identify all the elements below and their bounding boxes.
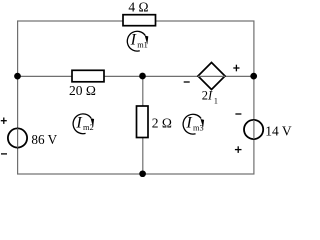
resistor 20 ohm (72, 70, 104, 82)
plus sign (diamond right) (233, 65, 239, 72)
svg-text:14 V: 14 V (265, 123, 292, 138)
dependent source 2I1 (diamond) (198, 63, 225, 90)
mesh current Im2 (73, 114, 94, 134)
minus sign (86V bottom) (1, 153, 7, 155)
minus sign (14V top) (235, 113, 241, 115)
wire middle horizontal (18, 75, 254, 77)
resistor 2 ohm (vertical) (137, 106, 149, 138)
svg-text:m2: m2 (83, 123, 94, 132)
svg-text:1: 1 (214, 97, 218, 106)
mesh current Im1 (127, 31, 148, 51)
wire middle vertical (142, 76, 144, 174)
voltage source 14V (244, 120, 263, 139)
svg-text:m1: m1 (137, 40, 148, 49)
voltage source 86V (8, 128, 27, 147)
node dot left (middle wire / left wire) (14, 73, 21, 80)
svg-text:2I: 2I (202, 89, 213, 103)
svg-text:I: I (75, 114, 82, 131)
node dot bottom (bottom wire / 2ohm branch) (139, 170, 146, 177)
node dot middle top (middle wire / 2ohm branch) (139, 73, 146, 80)
svg-text:2 Ω: 2 Ω (152, 116, 172, 131)
mesh current Im3 (183, 114, 204, 134)
svg-text:20 Ω: 20 Ω (69, 83, 96, 98)
node dot right (middle wire / right wire) (250, 73, 257, 80)
plus sign (86V top) (1, 118, 7, 124)
resistor 4 ohm (123, 15, 156, 26)
wire outer loop (18, 21, 254, 174)
minus sign (diamond left) (184, 81, 190, 83)
svg-text:m3: m3 (193, 123, 204, 132)
svg-text:86 V: 86 V (31, 132, 57, 147)
svg-text:I: I (185, 115, 192, 132)
svg-text:4 Ω: 4 Ω (128, 0, 148, 15)
svg-text:I: I (130, 32, 137, 49)
plus sign (14V bottom) (235, 146, 242, 153)
